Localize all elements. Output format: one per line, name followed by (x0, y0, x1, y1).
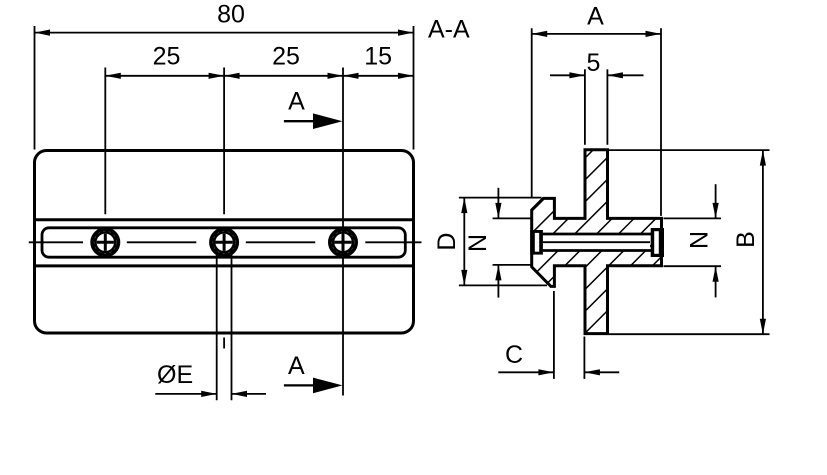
svg-text:A: A (288, 87, 305, 115)
section arrow top leader (284, 120, 317, 122)
section body outline (532, 150, 662, 334)
right cup socket (651, 228, 664, 257)
svg-text:ØE: ØE (157, 361, 193, 389)
svg-text:25: 25 (153, 43, 181, 71)
dimension E lines (155, 393, 266, 395)
svg-text:A-A: A-A (428, 16, 470, 44)
dimension 80 lines (35, 26, 414, 150)
section arrow top head (313, 113, 343, 129)
screw S1 (93, 230, 117, 254)
svg-text:B: B (732, 231, 760, 248)
arrowheads dimension N right (713, 203, 719, 219)
threaded channel top edge (543, 233, 652, 236)
screw S2 (212, 230, 236, 254)
svg-text:C: C (505, 341, 523, 369)
slot outline (42, 228, 405, 257)
dimension B lines (609, 150, 770, 334)
dimension N left lines (493, 188, 531, 298)
svg-text:A: A (587, 3, 604, 31)
svg-text:15: 15 (364, 43, 392, 71)
dimension C lines (498, 291, 619, 379)
channel axis line (543, 241, 650, 243)
hatching of section body (315, 140, 827, 340)
screw S3 (331, 230, 355, 254)
center line screw 2 (223, 68, 225, 215)
center line stub below screw 2 (223, 338, 225, 349)
svg-text:5: 5 (587, 49, 601, 77)
arrowheads dimension N left (495, 203, 501, 219)
dimension D lines (459, 198, 547, 286)
svg-text:80: 80 (217, 0, 245, 28)
svg-text:A: A (288, 352, 305, 380)
arrowheads dimension C (538, 369, 554, 375)
dimension N right lines (664, 184, 722, 297)
hole E extension lines (216, 249, 218, 400)
groove top edge (36, 218, 412, 221)
section arrow bottom leader (284, 384, 317, 386)
arrowheads dimension B (760, 150, 766, 166)
arrowheads dimension 5 (569, 72, 585, 78)
svg-text:N: N (685, 231, 713, 249)
plate outline (35, 151, 414, 334)
svg-text:D: D (433, 233, 461, 251)
arrowheads dimension 80 (35, 30, 51, 36)
center line screw 1 (104, 68, 106, 215)
dimension chain 25 25 15 line (105, 75, 413, 77)
center line horizontal (29, 241, 422, 243)
arrowheads dimension chain (105, 73, 121, 79)
groove bottom edge (36, 264, 412, 267)
dimension 5 lines (550, 69, 644, 145)
arrowheads dimension E (201, 391, 217, 397)
svg-text:25: 25 (272, 43, 300, 71)
threaded channel bottom edge (543, 249, 652, 252)
dimension A lines (532, 28, 661, 216)
arrowheads dimension D (461, 198, 467, 214)
arrowheads dimension A (532, 31, 548, 37)
section arrow bottom head (313, 378, 343, 394)
section cutting line A-A through screw 3 (342, 68, 344, 396)
left recess socket (530, 230, 543, 255)
svg-text:N: N (464, 234, 492, 252)
